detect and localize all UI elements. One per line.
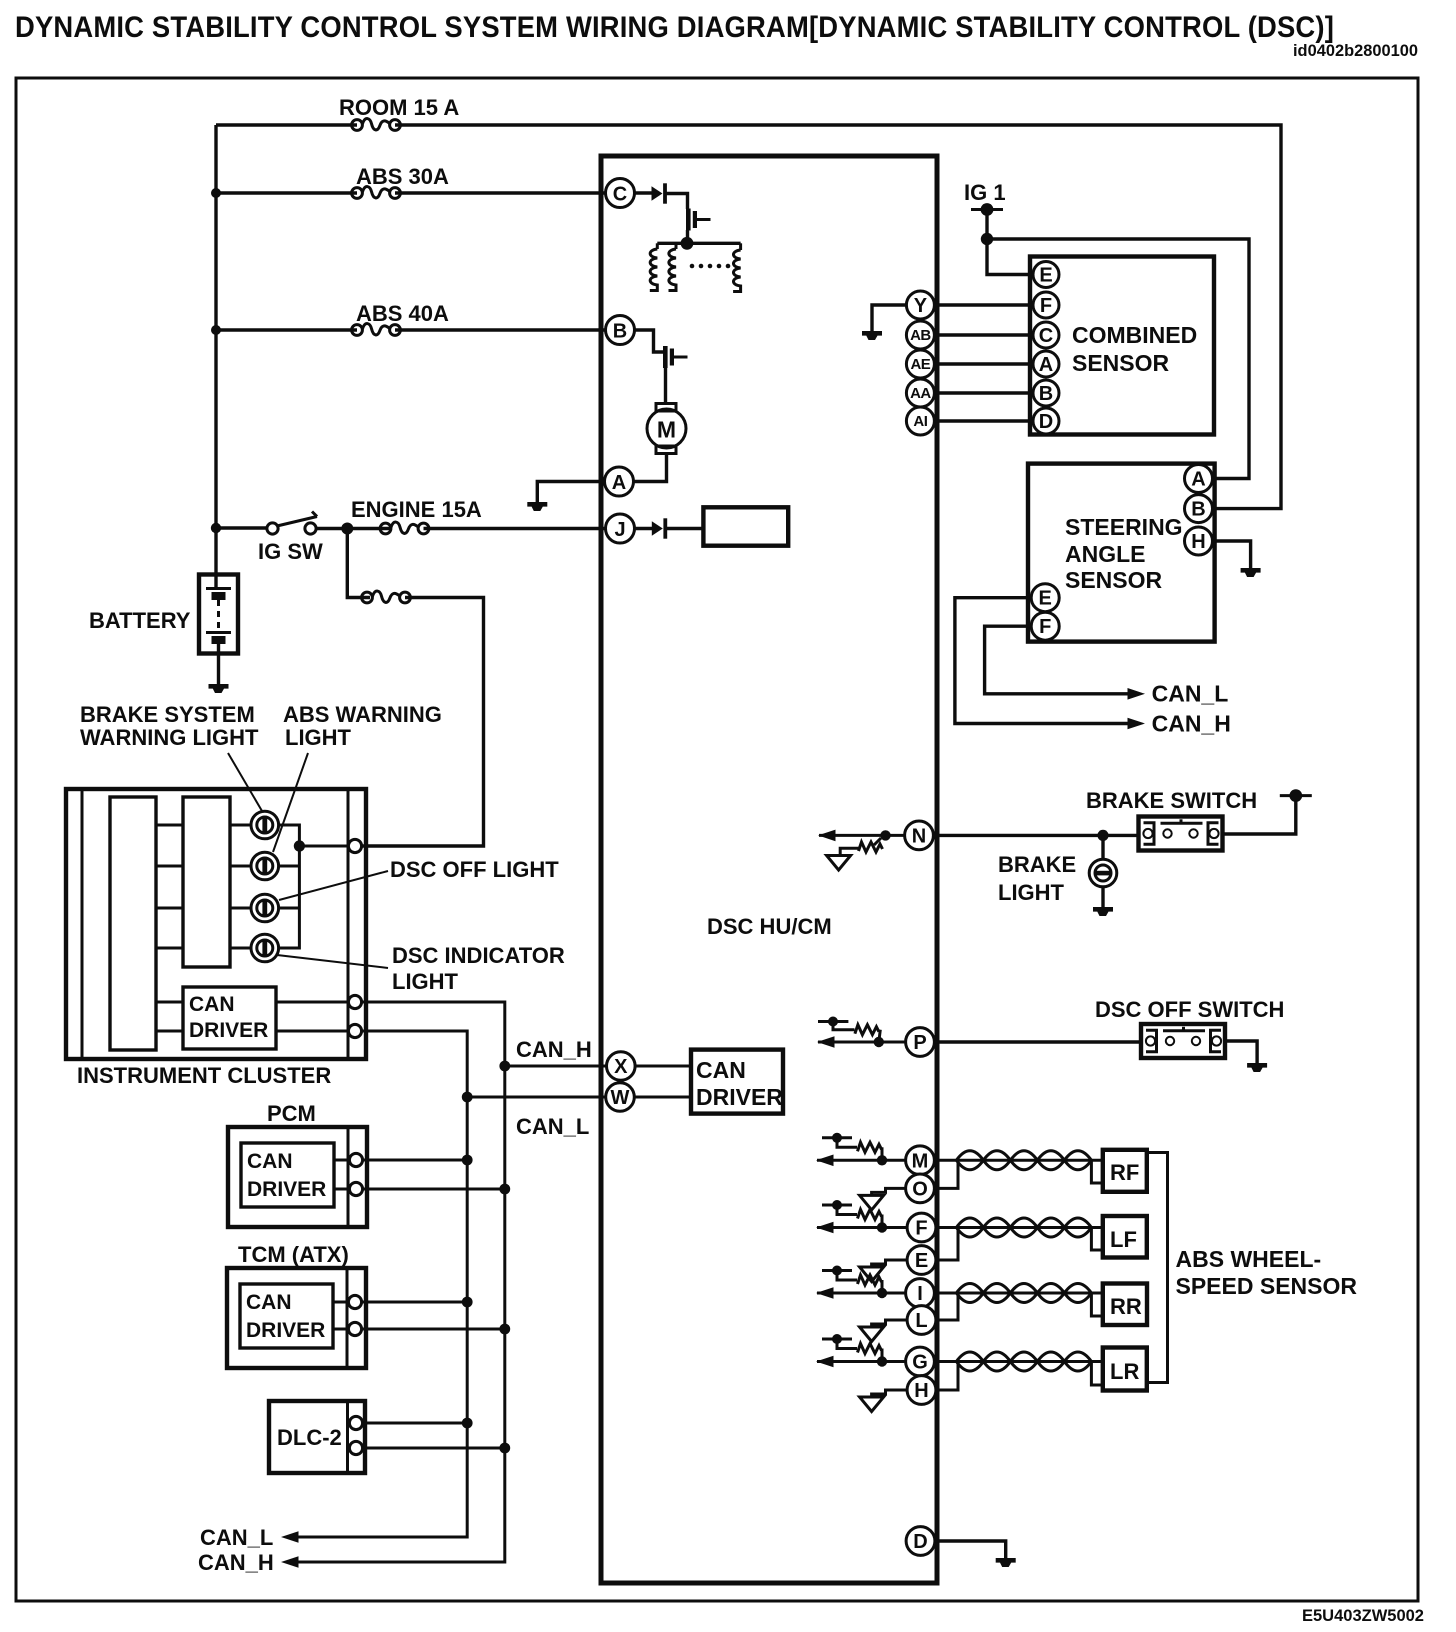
wire: lamp collector rail bbox=[279, 825, 300, 948]
svg-text:B: B bbox=[1191, 499, 1205, 521]
DSC HU/CM module box bbox=[601, 156, 937, 1583]
junction: CAN_H / X bbox=[499, 1061, 510, 1072]
svg-text:CAN: CAN bbox=[189, 993, 235, 1016]
terminal AI bbox=[906, 407, 934, 435]
CAN DRIVER box (PCM) bbox=[241, 1143, 334, 1207]
wire: A to ground bbox=[537, 482, 604, 504]
internal block (unlabeled) bbox=[703, 507, 788, 545]
wire: diode to FET1 bbox=[666, 194, 688, 210]
svg-text:B: B bbox=[613, 321, 627, 343]
wire: P to DSC OFF switch bbox=[934, 1040, 1141, 1043]
wire: battery negative lead bbox=[217, 644, 220, 685]
junction: F stub bbox=[877, 1222, 887, 1232]
arrow: CAN_H out bbox=[281, 1556, 299, 1568]
svg-text:F: F bbox=[1040, 295, 1052, 317]
cluster internal block 2 bbox=[183, 797, 230, 967]
svg-text:L: L bbox=[915, 1310, 927, 1332]
combined sensor pin C bbox=[1033, 322, 1059, 348]
svg-text:SENSOR: SENSOR bbox=[1072, 350, 1170, 376]
wire: battery feed bus bbox=[214, 125, 217, 576]
wire: cluster CAN_H out bbox=[276, 1001, 348, 1004]
terminal B bbox=[606, 316, 635, 345]
svg-text:STEERING: STEERING bbox=[1065, 514, 1183, 540]
svg-text:X: X bbox=[614, 1056, 628, 1078]
resistor: P pull bbox=[879, 1030, 881, 1042]
terminal F bbox=[907, 1213, 936, 1242]
svg-text:E: E bbox=[1039, 265, 1052, 287]
svg-text:WARNING LIGHT: WARNING LIGHT bbox=[80, 725, 259, 750]
wire: pair drop to RF lower pin bbox=[1091, 1160, 1102, 1183]
svg-text:CAN: CAN bbox=[247, 1150, 293, 1173]
svg-text:Y: Y bbox=[914, 295, 928, 317]
sensor box LF bbox=[1103, 1216, 1147, 1258]
terminal AA bbox=[906, 379, 934, 407]
terminal P bbox=[906, 1028, 935, 1057]
junction: PCM CAN_H bbox=[499, 1184, 510, 1195]
svg-text:M: M bbox=[657, 417, 676, 443]
connector pin: cluster power bbox=[348, 839, 361, 852]
terminal A bbox=[605, 467, 634, 496]
wire: block1-block2 row3 bbox=[156, 907, 183, 910]
svg-text:E5U403ZW5002: E5U403ZW5002 bbox=[1302, 1607, 1424, 1625]
svg-text:SENSOR: SENSOR bbox=[1065, 567, 1163, 593]
wire: IG SW row feed bbox=[216, 526, 266, 529]
transistor Q2 (pump motor FET) bbox=[663, 346, 688, 368]
switch: DSC OFF switch bbox=[1141, 1024, 1225, 1058]
diode D1 (pump relay) bbox=[652, 183, 667, 203]
wire: F to CAN_L arrow bbox=[985, 626, 1128, 694]
svg-text:ENGINE 15A: ENGINE 15A bbox=[351, 497, 482, 522]
wire: AI to D bbox=[935, 419, 1032, 422]
svg-text:DSC OFF SWITCH: DSC OFF SWITCH bbox=[1095, 997, 1284, 1022]
tap stub: M bbox=[822, 1136, 852, 1139]
svg-text:BRAKE SYSTEM: BRAKE SYSTEM bbox=[80, 702, 255, 727]
svg-text:DSC HU/CM: DSC HU/CM bbox=[707, 914, 832, 939]
wire: ROOM 15A row to right side bbox=[216, 123, 357, 126]
wire: E to CAN_H arrow bbox=[955, 598, 1128, 724]
svg-text:LIGHT: LIGHT bbox=[998, 880, 1065, 905]
wire: M stub left with arrow bbox=[817, 1159, 906, 1162]
ground: terminal A bbox=[527, 502, 547, 511]
svg-text:ABS 40A: ABS 40A bbox=[356, 301, 449, 326]
solenoid coil L3 bbox=[739, 243, 742, 250]
switch IG SW bbox=[267, 523, 278, 534]
svg-text:id0402b2800100: id0402b2800100 bbox=[1293, 42, 1418, 60]
terminal M bbox=[906, 1146, 935, 1175]
wire: E rise to pair bbox=[936, 1229, 958, 1260]
lamp: BRAKE LIGHT bbox=[1089, 859, 1117, 887]
wire: DLC-2 CAN_L bbox=[363, 1422, 468, 1425]
sensor box LR bbox=[1103, 1348, 1147, 1391]
wire: cluster CAN_L out bbox=[276, 1030, 348, 1033]
terminal X bbox=[607, 1052, 636, 1081]
svg-text:H: H bbox=[1191, 531, 1205, 553]
resistor: M pull bbox=[881, 1147, 884, 1160]
svg-text:H: H bbox=[914, 1380, 928, 1402]
junction: TCM CAN_H bbox=[499, 1324, 510, 1335]
wire: H rise to pair bbox=[936, 1363, 958, 1390]
svg-text:ROOM 15 A: ROOM 15 A bbox=[339, 95, 459, 120]
svg-text:LR: LR bbox=[1110, 1359, 1139, 1384]
motor M (ABS pump) bbox=[647, 404, 686, 454]
junction: bus / ABS40A row bbox=[211, 325, 221, 335]
solenoid coil L1 bbox=[656, 243, 659, 249]
combined sensor pin A bbox=[1033, 351, 1059, 377]
junction: I stub bbox=[877, 1288, 887, 1298]
steering sensor pin F bbox=[1031, 612, 1059, 640]
wire: Q1 source to coil rail bbox=[686, 230, 689, 243]
battery positive lead bbox=[214, 576, 217, 588]
svg-text:BATTERY: BATTERY bbox=[89, 608, 191, 633]
svg-text:M: M bbox=[912, 1150, 929, 1172]
connector pin: TCM CAN_H bbox=[348, 1322, 361, 1335]
svg-text:ABS WHEEL-: ABS WHEEL- bbox=[1176, 1246, 1322, 1272]
resistor: F pull bbox=[881, 1215, 884, 1228]
svg-text:CAN: CAN bbox=[696, 1057, 746, 1083]
wire: diode to internal block bbox=[666, 527, 703, 530]
svg-text:IG 1: IG 1 bbox=[964, 180, 1006, 205]
junction: P stub bbox=[874, 1037, 884, 1047]
connector pin: DLC-2 CAN_L bbox=[349, 1416, 362, 1429]
solenoid coil L2 bbox=[675, 243, 678, 249]
svg-text:E: E bbox=[1039, 588, 1052, 610]
junction: bus / IG SW row bbox=[211, 523, 221, 533]
DLC-2 box bbox=[269, 1401, 365, 1473]
connector pin: cluster CAN_H bbox=[348, 995, 361, 1008]
wire: DSC OFF switch to ground bbox=[1225, 1041, 1257, 1064]
svg-text:RR: RR bbox=[1110, 1294, 1142, 1319]
leader: brake system warning light bbox=[228, 753, 262, 811]
combined sensor pin F bbox=[1033, 292, 1059, 318]
svg-text:DRIVER: DRIVER bbox=[246, 1319, 325, 1342]
ground: steering H bbox=[1241, 568, 1261, 577]
wire: TCM CAN_L bbox=[362, 1301, 468, 1304]
svg-text:DYNAMIC STABILITY CONTROL SYST: DYNAMIC STABILITY CONTROL SYSTEM WIRING … bbox=[15, 11, 1334, 44]
junction: coil rail bbox=[681, 237, 694, 250]
wire: C to diode bbox=[635, 191, 653, 194]
TCM box bbox=[227, 1268, 366, 1368]
junction: G stub bbox=[877, 1356, 887, 1366]
svg-text:LIGHT: LIGHT bbox=[392, 969, 459, 994]
svg-text:C: C bbox=[1039, 325, 1053, 347]
terminal O bbox=[906, 1174, 935, 1203]
svg-text:SPEED SENSOR: SPEED SENSOR bbox=[1176, 1273, 1358, 1299]
svg-text:IG SW: IG SW bbox=[258, 539, 323, 564]
svg-text:E: E bbox=[915, 1250, 928, 1272]
terminal L bbox=[907, 1306, 936, 1335]
wire: lamp feeds bbox=[230, 824, 251, 827]
svg-text:DLC-2: DLC-2 bbox=[277, 1425, 342, 1450]
wire: Y to F bbox=[935, 303, 1032, 306]
wire: block1-block2 row2 bbox=[156, 865, 183, 868]
wire: I stub left with arrow bbox=[817, 1292, 906, 1295]
svg-text:B: B bbox=[1039, 383, 1053, 405]
svg-text:PCM: PCM bbox=[267, 1101, 316, 1126]
leader: dsc indicator light bbox=[277, 955, 388, 968]
ground: terminal Y bbox=[862, 331, 882, 340]
wire: L rise to pair bbox=[936, 1295, 958, 1320]
leader: dsc off light bbox=[279, 871, 388, 900]
shield triangle: O bbox=[860, 1195, 884, 1210]
wire: AE to A bbox=[935, 362, 1032, 365]
wire: Q2 source to motor bbox=[664, 368, 667, 404]
svg-text:AE: AE bbox=[910, 356, 930, 373]
terminal C bbox=[606, 179, 635, 208]
battery BATTERY bbox=[199, 575, 238, 654]
svg-text:LIGHT: LIGHT bbox=[285, 725, 352, 750]
svg-text:I: I bbox=[917, 1283, 923, 1305]
PCM box bbox=[228, 1127, 367, 1227]
svg-text:AB: AB bbox=[910, 327, 931, 344]
wire: G to LR (twisted pair) bbox=[937, 1360, 1103, 1363]
fuse meter (unlabeled) bbox=[362, 591, 411, 603]
svg-text:O: O bbox=[912, 1178, 928, 1200]
fuse ENGINE 15A bbox=[380, 522, 429, 534]
wire: D to ground bbox=[935, 1541, 1006, 1559]
svg-text:CAN_H: CAN_H bbox=[198, 1550, 274, 1575]
connector pin: PCM CAN_H bbox=[349, 1182, 362, 1195]
wire: DLC-2 CAN_H bbox=[363, 1447, 505, 1450]
svg-text:ABS 30A: ABS 30A bbox=[356, 164, 449, 189]
wire: pair drop to LF lower pin bbox=[1091, 1228, 1102, 1251]
terminal W bbox=[606, 1083, 635, 1112]
svg-text:DRIVER: DRIVER bbox=[696, 1084, 783, 1110]
junction: TCM CAN_L bbox=[462, 1297, 473, 1308]
shield wire: O bbox=[872, 1188, 906, 1195]
wire: O rise to pair bbox=[934, 1162, 958, 1188]
svg-text:P: P bbox=[913, 1032, 926, 1054]
wire: IG1 down bbox=[985, 210, 988, 240]
svg-text:BRAKE: BRAKE bbox=[998, 852, 1076, 877]
terminal D bbox=[906, 1527, 935, 1556]
wire: W to internal CAN driver bbox=[634, 1096, 691, 1099]
tcm driver stubs bbox=[333, 1301, 347, 1304]
shield triangle: E bbox=[860, 1267, 884, 1282]
shield triangle: L bbox=[860, 1327, 884, 1342]
lamp: brake system warning light bbox=[251, 811, 279, 839]
junction: ENGINE15A / meter-fuse branch bbox=[341, 523, 353, 535]
CAN DRIVER box (DSC internal) bbox=[691, 1050, 783, 1114]
wire: brake light drop bbox=[1101, 835, 1104, 859]
connector pin: DLC-2 CAN_H bbox=[349, 1441, 362, 1454]
sensor box RF bbox=[1103, 1150, 1147, 1192]
svg-text:LF: LF bbox=[1110, 1227, 1137, 1252]
terminal H bbox=[907, 1376, 936, 1405]
svg-text:TCM (ATX): TCM (ATX) bbox=[238, 1242, 349, 1267]
terminal Y bbox=[906, 291, 934, 319]
svg-text:F: F bbox=[1039, 616, 1051, 638]
terminal I bbox=[906, 1279, 935, 1308]
wire: M to RF (twisted pair) bbox=[937, 1159, 1103, 1162]
wire: F to LF (twisted pair) bbox=[937, 1226, 1103, 1229]
lamp: ABS warning light bbox=[251, 852, 279, 880]
connector pin: cluster CAN_L bbox=[348, 1024, 361, 1037]
connector pin: TCM CAN_L bbox=[348, 1295, 361, 1308]
pcm driver stubs bbox=[334, 1159, 348, 1162]
svg-text:CAN_L: CAN_L bbox=[1152, 681, 1229, 707]
STEERING ANGLE SENSOR box bbox=[1028, 464, 1215, 642]
svg-text:CAN_L: CAN_L bbox=[200, 1525, 273, 1550]
dotted continuation marks bbox=[690, 264, 731, 269]
junction: IG1 split bbox=[981, 233, 993, 245]
resistor: N pull bbox=[874, 838, 881, 845]
fuse ABS 30A bbox=[352, 187, 401, 199]
svg-text:A: A bbox=[1191, 469, 1205, 491]
wire: meter fuse to instrument cluster bbox=[362, 598, 484, 847]
svg-text:CAN_L: CAN_L bbox=[516, 1114, 589, 1139]
combined sensor pin B bbox=[1033, 380, 1059, 406]
svg-text:AA: AA bbox=[910, 385, 931, 402]
junction: M stub bbox=[877, 1155, 887, 1165]
wire: block1-block2 row1 bbox=[156, 824, 183, 827]
shield wire: L bbox=[872, 1320, 907, 1327]
steering sensor pin B bbox=[1185, 495, 1213, 523]
sensor box RR bbox=[1103, 1284, 1147, 1326]
svg-text:N: N bbox=[912, 825, 926, 847]
wire: IG1 to steering angle sensor A bbox=[987, 239, 1249, 479]
terminal G bbox=[906, 1347, 935, 1376]
wire: AB to C bbox=[935, 333, 1032, 336]
wire: AA to B bbox=[935, 391, 1032, 394]
resistor: I pull bbox=[881, 1280, 884, 1293]
fuse ROOM 15 A bbox=[352, 119, 401, 131]
wire: cluster CAN_L to bus bbox=[287, 1031, 467, 1537]
shield triangle: N bbox=[827, 856, 851, 871]
shield wire: H bbox=[872, 1390, 907, 1397]
wire: motor to terminal A bbox=[634, 454, 667, 482]
svg-text:COMBINED: COMBINED bbox=[1072, 322, 1197, 348]
terminal E bbox=[907, 1246, 936, 1275]
terminal J bbox=[606, 514, 635, 543]
ground: DSC OFF switch bbox=[1247, 1063, 1267, 1072]
svg-text:D: D bbox=[1039, 411, 1053, 433]
wire: block1-block2 row4 bbox=[156, 947, 183, 950]
svg-text:CAN_H: CAN_H bbox=[516, 1037, 592, 1062]
junction: lamp rail tap bbox=[299, 845, 348, 848]
svg-text:C: C bbox=[613, 184, 627, 206]
wire: ENGINE 15A row to terminal J bbox=[424, 527, 607, 530]
wire: CAN_L line to W bbox=[467, 1096, 606, 1099]
wire: Y internal ground bbox=[872, 305, 906, 332]
wire: IG1 to combined sensor E bbox=[987, 239, 1033, 275]
junction: CAN_L / W bbox=[462, 1092, 473, 1103]
bracket: wheel speed sensor group bbox=[1147, 1153, 1168, 1383]
lamp: DSC indicator light bbox=[251, 934, 279, 962]
combined sensor pin E bbox=[1033, 262, 1059, 288]
wire: P stub left with arrow bbox=[818, 1041, 906, 1044]
wire: H to ground bbox=[1213, 541, 1251, 569]
junction: PCM CAN_L bbox=[462, 1155, 473, 1166]
COMBINED SENSOR box bbox=[1030, 257, 1214, 435]
svg-text:F: F bbox=[915, 1218, 927, 1240]
wire: IG SW to fuse bbox=[316, 527, 390, 530]
wire: cluster CAN_H to bus bbox=[287, 1002, 505, 1562]
svg-text:CAN: CAN bbox=[246, 1291, 292, 1314]
shield triangle: H bbox=[860, 1397, 884, 1412]
svg-text:BRAKE SWITCH: BRAKE SWITCH bbox=[1086, 788, 1257, 813]
switch: brake switch bbox=[1139, 817, 1223, 851]
wire: brake light to ground bbox=[1101, 887, 1104, 908]
INSTRUMENT CLUSTER box bbox=[66, 789, 366, 1059]
steering sensor pin H bbox=[1185, 527, 1213, 555]
wire: cluster can driver feeds bbox=[156, 1001, 183, 1004]
wire: branch to meter fuse bbox=[347, 529, 370, 598]
terminal AE bbox=[906, 350, 934, 378]
steering sensor pin A bbox=[1185, 465, 1213, 493]
wire: solenoid coil rail bbox=[657, 242, 740, 245]
svg-text:DSC OFF LIGHT: DSC OFF LIGHT bbox=[390, 857, 559, 882]
wire: CAN_H line to X bbox=[505, 1065, 606, 1068]
lamp: DSC OFF light bbox=[251, 894, 279, 922]
svg-text:ABS WARNING: ABS WARNING bbox=[283, 702, 442, 727]
wire: pair drop to LR lower pin bbox=[1091, 1362, 1102, 1386]
transistor Q1 (valve relay FET) bbox=[686, 209, 711, 231]
wire: PCM CAN_H bbox=[363, 1188, 505, 1191]
junction: DLC-2 CAN_L bbox=[462, 1418, 473, 1429]
wire: brake switch to battery tap bbox=[1223, 796, 1296, 834]
arrow: CAN_L out bbox=[281, 1531, 299, 1543]
junction: N stub bbox=[880, 830, 890, 840]
cluster internal block 1 bbox=[110, 797, 156, 1050]
tap stub: P bbox=[818, 1020, 848, 1023]
connector pin: PCM CAN_L bbox=[349, 1153, 362, 1166]
wire: X to internal CAN driver bbox=[635, 1065, 691, 1068]
resistor: G pull bbox=[881, 1349, 884, 1362]
svg-text:J: J bbox=[614, 519, 625, 541]
wire: G stub left with arrow bbox=[817, 1360, 906, 1363]
svg-text:DRIVER: DRIVER bbox=[247, 1178, 326, 1201]
tap stub: F bbox=[822, 1204, 852, 1207]
ground: brake light bbox=[1093, 907, 1113, 916]
power tap: brake switch bbox=[1280, 789, 1312, 802]
tap stub: I bbox=[822, 1269, 852, 1272]
steering sensor pin E bbox=[1031, 584, 1059, 612]
svg-text:ANGLE: ANGLE bbox=[1065, 541, 1146, 567]
wire: I to RR (twisted pair) bbox=[937, 1292, 1103, 1295]
svg-text:W: W bbox=[611, 1087, 630, 1109]
svg-text:RF: RF bbox=[1110, 1160, 1139, 1185]
wire: B to FET2 bbox=[635, 330, 665, 352]
tap stub: G bbox=[822, 1338, 852, 1341]
wire: PCM CAN_L bbox=[363, 1159, 468, 1162]
wire: ABS 30A row bbox=[216, 191, 357, 194]
shield wire: E bbox=[872, 1260, 907, 1267]
CAN DRIVER box (TCM) bbox=[240, 1284, 333, 1348]
leader: abs warning light bbox=[273, 753, 308, 852]
junction: bus / ABS30A row bbox=[211, 188, 221, 198]
CAN DRIVER box (cluster) bbox=[183, 987, 276, 1049]
wire: N to brake switch bbox=[933, 834, 1139, 837]
terminal N bbox=[905, 821, 934, 850]
svg-text:INSTRUMENT CLUSTER: INSTRUMENT CLUSTER bbox=[77, 1063, 331, 1088]
ground: battery bbox=[209, 684, 229, 693]
wire: TCM CAN_H bbox=[362, 1328, 505, 1331]
fuse ABS 40A bbox=[352, 324, 401, 336]
svg-text:DSC INDICATOR: DSC INDICATOR bbox=[392, 943, 565, 968]
svg-text:AI: AI bbox=[913, 413, 927, 430]
svg-text:D: D bbox=[913, 1531, 927, 1553]
junction: DLC-2 CAN_H bbox=[499, 1443, 510, 1454]
combined sensor pin D bbox=[1033, 408, 1059, 434]
svg-text:A: A bbox=[1039, 354, 1053, 376]
ground: terminal D bbox=[996, 1558, 1016, 1567]
wire: pair drop to RR lower pin bbox=[1091, 1293, 1102, 1316]
wire: F stub left with arrow bbox=[817, 1226, 907, 1229]
svg-text:G: G bbox=[912, 1352, 928, 1374]
svg-text:A: A bbox=[612, 472, 626, 494]
wire: ABS 40A row bbox=[216, 328, 357, 331]
diode D2 bbox=[652, 518, 667, 538]
